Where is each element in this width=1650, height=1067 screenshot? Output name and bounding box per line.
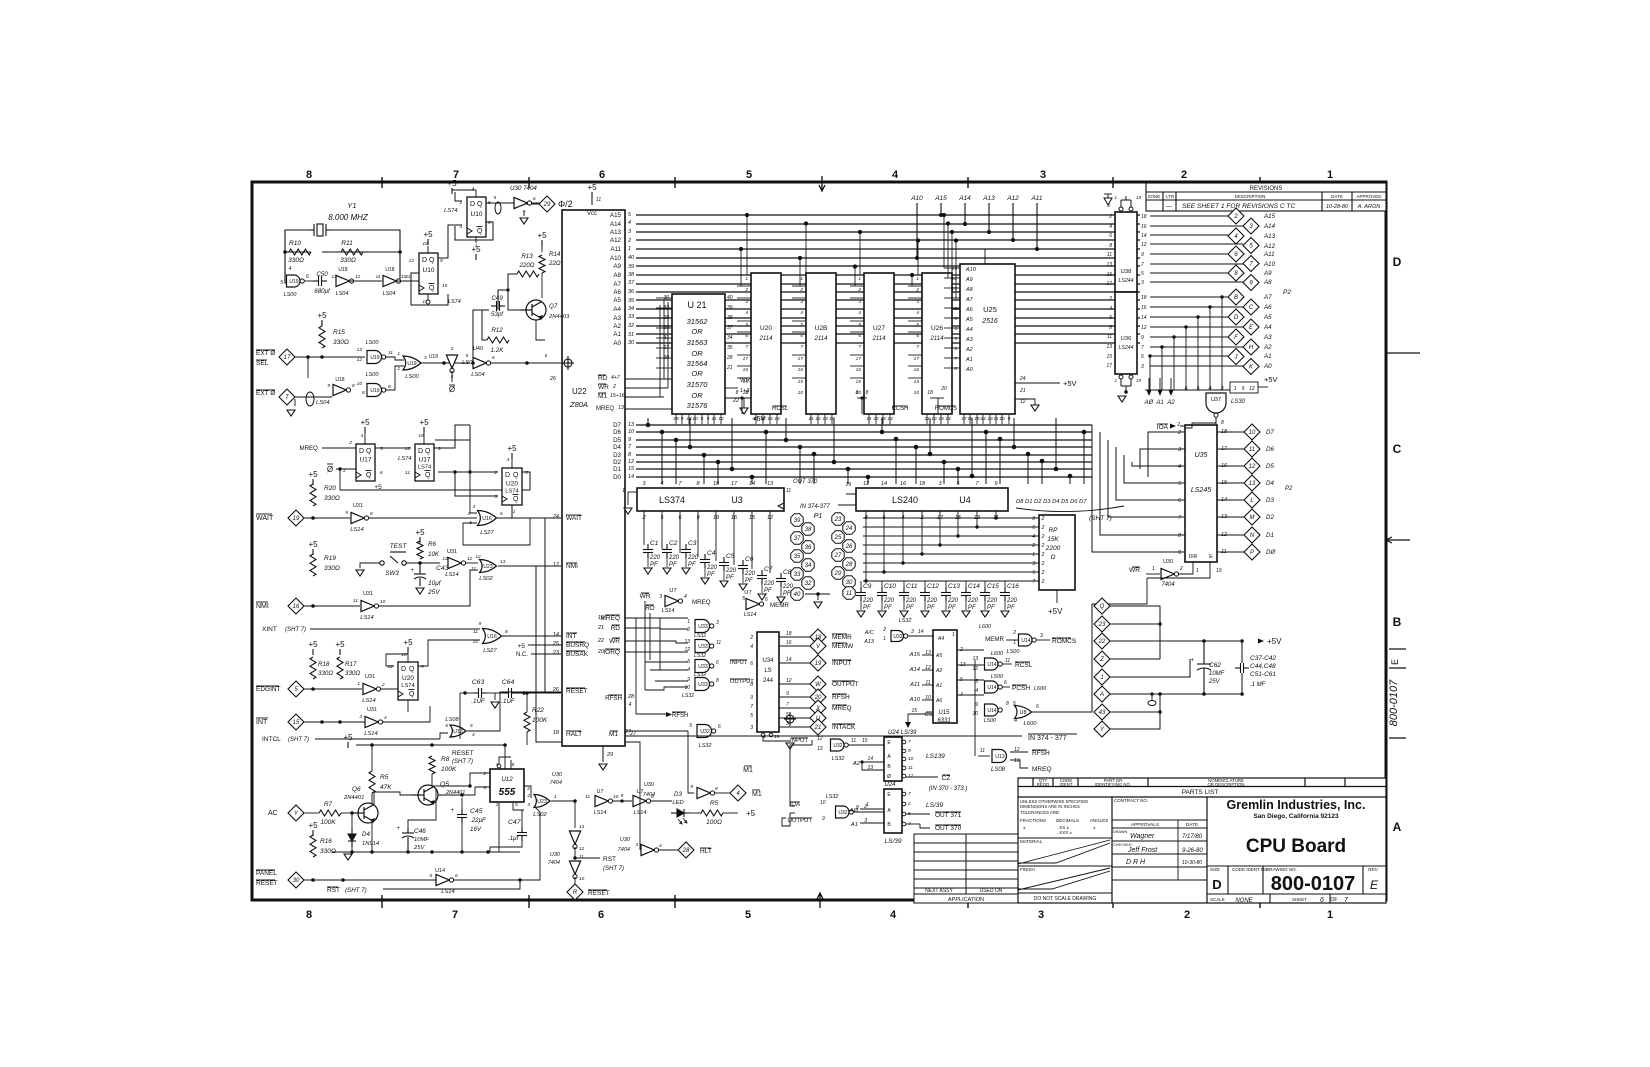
- svg-text:10-28-80: 10-28-80: [1326, 204, 1349, 210]
- ground at C15: [981, 611, 989, 617]
- wire: [737, 397, 747, 399]
- svg-text:+5: +5: [308, 470, 318, 479]
- wire: [976, 414, 978, 424]
- junction: [1160, 345, 1163, 348]
- svg-text:U4: U4: [959, 495, 971, 505]
- svg-text:U14: U14: [987, 662, 996, 668]
- ground at C16: [1001, 611, 1009, 617]
- svg-text:USED ON: USED ON: [980, 888, 1003, 894]
- svg-text:E: E: [1370, 878, 1379, 892]
- connector diamond M D2: [1244, 509, 1260, 525]
- svg-text:C62: C62: [1209, 662, 1221, 669]
- zone tick: [528, 177, 530, 188]
- svg-text:U30: U30: [550, 852, 561, 858]
- svg-text:9: 9: [438, 446, 441, 452]
- C11 lead: [903, 581, 905, 587]
- connector diamond R RESET: [567, 884, 583, 900]
- svg-text:1: 1: [687, 619, 690, 625]
- wire: [978, 755, 990, 757]
- svg-text:U34: U34: [762, 658, 774, 664]
- junction: [398, 250, 402, 254]
- svg-text:D3: D3: [674, 791, 682, 798]
- BUSRQ wire: [528, 644, 561, 646]
- wire: [969, 414, 971, 424]
- flip-flop U17a LS574: [356, 444, 375, 481]
- wire: [475, 190, 477, 197]
- svg-text:U36: U36: [1121, 336, 1132, 342]
- net RESET out: [588, 890, 610, 897]
- svg-text:8: 8: [954, 366, 957, 372]
- svg-text:2: 2: [744, 287, 748, 293]
- U20a wiring: [434, 425, 545, 518]
- wire: [723, 571, 725, 580]
- svg-text:D: D: [505, 472, 510, 479]
- svg-text:11: 11: [1107, 252, 1112, 258]
- A10 vertical drop: [916, 203, 918, 258]
- svg-text:14: 14: [867, 756, 873, 762]
- transistor Q5: [412, 785, 438, 805]
- svg-text:A7: A7: [965, 297, 974, 303]
- wire R14 to Q7: [541, 273, 543, 298]
- NAND gate U33: [695, 620, 714, 633]
- svg-text:D1: D1: [613, 466, 621, 473]
- svg-text:38: 38: [727, 315, 733, 321]
- inverter U31a LS14: [351, 512, 369, 523]
- svg-text:1: 1: [513, 509, 516, 515]
- svg-text:2114: 2114: [814, 336, 829, 342]
- +5 at R6: [415, 528, 425, 543]
- wire: [982, 414, 984, 424]
- vertical rail to U13: [974, 660, 976, 756]
- wire: [650, 800, 672, 802]
- svg-text:LS32: LS32: [694, 672, 706, 678]
- svg-text:7: 7: [908, 739, 911, 745]
- svg-text:RFSH: RFSH: [832, 694, 850, 701]
- flip-flop U17b LS574: [415, 444, 434, 481]
- svg-text:LS14: LS14: [441, 889, 455, 895]
- MREQ wire: [625, 408, 672, 410]
- junction: [620, 799, 623, 802]
- capacitor C63: [473, 688, 487, 698]
- svg-text:5: 5: [494, 195, 497, 201]
- ground at C3: [682, 568, 690, 574]
- connector diamond 11 D6: [1244, 441, 1260, 457]
- junction: [320, 355, 324, 359]
- svg-text:15+16: 15+16: [610, 393, 625, 399]
- junction: [1202, 639, 1206, 643]
- wire: [838, 504, 856, 506]
- svg-text:3: 3: [1040, 633, 1043, 639]
- svg-text:11: 11: [585, 794, 590, 800]
- wire: [460, 692, 473, 694]
- svg-text:9: 9: [1242, 386, 1245, 392]
- svg-text:24: 24: [552, 514, 559, 520]
- svg-text:R5: R5: [380, 774, 389, 781]
- wire: [396, 280, 419, 282]
- svg-text:3: 3: [494, 494, 497, 500]
- svg-text:19: 19: [774, 734, 780, 740]
- svg-text:A1: A1: [1263, 353, 1272, 360]
- inverter U18a LS04: [336, 275, 354, 286]
- svg-text:C47: C47: [508, 819, 521, 826]
- wire: [675, 414, 677, 424]
- NAND gate U32d: [836, 806, 854, 818]
- U22 pin BUSRQ label: [566, 642, 589, 649]
- junction: [573, 799, 577, 803]
- material diagonal: [1018, 840, 1110, 864]
- svg-text:CZ: CZ: [942, 775, 951, 782]
- +5 rail bottom: [343, 733, 353, 748]
- svg-text:OUTPUT: OUTPUT: [787, 818, 812, 824]
- junction A11: [1035, 247, 1039, 251]
- svg-text:PF: PF: [726, 575, 734, 581]
- svg-text:11: 11: [353, 598, 358, 604]
- svg-text:22: 22: [732, 398, 739, 404]
- svg-text:(SHT 7): (SHT 7): [603, 866, 624, 872]
- svg-text:LED: LED: [672, 800, 683, 806]
- svg-text:13: 13: [767, 481, 774, 487]
- svg-text:9: 9: [621, 793, 624, 799]
- svg-text:5: 5: [689, 723, 692, 729]
- svg-text:U20: U20: [402, 675, 414, 682]
- svg-text:U27: U27: [873, 325, 885, 332]
- wire: [490, 841, 522, 852]
- svg-text:5: 5: [745, 322, 748, 328]
- svg-text:MEMR: MEMR: [985, 636, 1004, 643]
- wire U3 output: [643, 511, 645, 545]
- svg-text:DESCRIPTION: DESCRIPTION: [1235, 194, 1266, 199]
- NAND gate U33: [695, 660, 714, 673]
- svg-text:2: 2: [493, 470, 497, 476]
- svg-text:13: 13: [628, 422, 635, 428]
- bead at EXT PHI: [306, 392, 314, 406]
- svg-text:+5V: +5V: [1267, 637, 1282, 646]
- wire: [348, 745, 356, 749]
- capacitor C37-C61: [1235, 663, 1249, 673]
- wire: [340, 888, 437, 890]
- wire: [1010, 760, 1028, 768]
- svg-text:11: 11: [908, 765, 913, 771]
- svg-text:(SHT 7): (SHT 7): [288, 737, 309, 743]
- svg-text:26: 26: [549, 376, 557, 382]
- +5 at U17a: [360, 418, 370, 433]
- svg-text:16: 16: [293, 604, 300, 610]
- junction U4-RP: [938, 543, 941, 546]
- resistor R5 100ohm: [701, 810, 723, 816]
- svg-text:10: 10: [401, 652, 407, 658]
- svg-text:10: 10: [914, 390, 920, 396]
- svg-text:LS244: LS244: [1118, 278, 1133, 284]
- svg-text:220: 220: [725, 568, 737, 574]
- wire: [459, 739, 461, 748]
- svg-text:11: 11: [376, 274, 381, 280]
- svg-text:MEMW: MEMW: [832, 643, 854, 650]
- connector pin 30: [843, 576, 855, 588]
- svg-text:Q: Q: [425, 448, 431, 455]
- svg-text:28: 28: [845, 562, 853, 568]
- svg-text:28: 28: [627, 694, 635, 700]
- svg-text:3: 3: [716, 620, 719, 626]
- svg-text:9: 9: [690, 784, 693, 790]
- address bus line A0: [636, 342, 1140, 344]
- wire: [906, 823, 920, 825]
- svg-text:L600: L600: [1024, 721, 1038, 727]
- svg-text:U2B: U2B: [815, 325, 828, 332]
- svg-text:D4: D4: [362, 831, 370, 838]
- svg-text:21: 21: [726, 365, 733, 371]
- svg-text:11: 11: [980, 748, 985, 754]
- svg-text:A5: A5: [1263, 314, 1272, 321]
- A12 vertical drop: [1012, 203, 1014, 240]
- stepped data wire D6: [1140, 449, 1185, 469]
- svg-text:26: 26: [845, 544, 853, 550]
- wire: [627, 492, 629, 505]
- wire: [824, 414, 826, 424]
- resistor R6: [417, 541, 423, 559]
- svg-text:LS244: LS244: [1118, 345, 1133, 351]
- svg-text:LS32: LS32: [682, 693, 694, 699]
- svg-text:L600: L600: [1034, 686, 1047, 692]
- svg-text:8: 8: [388, 384, 391, 390]
- title block outline: [1018, 778, 1386, 903]
- svg-text:U19: U19: [407, 361, 416, 367]
- ROM U21: [672, 294, 725, 414]
- svg-text:C45: C45: [470, 808, 483, 815]
- svg-text:U35: U35: [1195, 452, 1208, 459]
- svg-text:U32: U32: [893, 634, 902, 640]
- wire to address diamond: [1150, 234, 1228, 236]
- U22 pin BUSAK label: [566, 651, 589, 658]
- arrowhead IOA: [1170, 424, 1176, 429]
- wire to DIR: [1178, 562, 1193, 574]
- WR wire: [625, 387, 668, 389]
- svg-text:RP: RP: [1048, 527, 1058, 534]
- svg-text:220: 220: [986, 598, 998, 604]
- wire to address diamond: [1150, 316, 1228, 318]
- svg-text:12: 12: [579, 846, 585, 852]
- svg-text:DATE: DATE: [1186, 822, 1198, 827]
- svg-text:17: 17: [1106, 281, 1112, 287]
- svg-text:F: F: [1234, 335, 1238, 341]
- wire: [1151, 694, 1153, 700]
- svg-text:SCALE: SCALE: [1210, 897, 1225, 902]
- connector diamond 10 D7: [1244, 424, 1260, 440]
- wire P1 40-11: [805, 593, 830, 595]
- capacitor C4 symbol: [700, 554, 710, 568]
- ROM U25 2516: [960, 264, 1015, 414]
- svg-text:28: 28: [682, 848, 690, 854]
- svg-text:PF: PF: [745, 578, 753, 584]
- connector diamond Q: [1094, 598, 1110, 614]
- svg-text:Q6: Q6: [352, 786, 361, 793]
- connector diamond A: [1094, 686, 1110, 702]
- svg-text:9: 9: [440, 258, 443, 264]
- net label RFSH: [832, 694, 850, 701]
- ground at P1: [814, 602, 822, 608]
- RFSH wire: [636, 713, 666, 715]
- svg-text:7: 7: [908, 791, 911, 797]
- wire to U37 input: [1197, 317, 1199, 390]
- svg-text:17: 17: [1106, 363, 1112, 369]
- svg-text:+5: +5: [403, 638, 413, 647]
- MREQ wire from U22: [625, 617, 660, 619]
- connector pin 35: [791, 550, 803, 562]
- connector diamond 3 A14: [1243, 218, 1259, 234]
- ground at U30a: [520, 218, 528, 224]
- svg-text:REQD: REQD: [1037, 782, 1049, 787]
- svg-text:WR: WR: [640, 593, 651, 600]
- ground at U21: [740, 408, 748, 414]
- C14 lead: [965, 581, 967, 587]
- svg-text:2: 2: [1181, 169, 1187, 181]
- svg-text:A10: A10: [1263, 261, 1276, 268]
- U21 address stubs: [656, 298, 672, 368]
- wire to diamond 19: [779, 662, 810, 664]
- svg-text:PF: PF: [688, 562, 696, 568]
- U15 output wire: [957, 694, 984, 696]
- svg-text:A2: A2: [613, 323, 621, 330]
- svg-text:2114: 2114: [759, 336, 774, 342]
- resistor R10: [289, 249, 311, 255]
- flip-flop U20b LS74: [398, 662, 418, 700]
- svg-text:6: 6: [1109, 233, 1112, 239]
- svg-text:21: 21: [814, 725, 822, 731]
- +5 at R13/R14: [537, 231, 547, 246]
- approvals table: [1112, 820, 1207, 880]
- svg-text:10: 10: [1249, 430, 1256, 436]
- svg-text:15: 15: [628, 466, 635, 472]
- svg-text:8: 8: [1109, 243, 1112, 249]
- svg-text:1.2K: 1.2K: [491, 347, 505, 354]
- svg-text:OUT 370: OUT 370: [793, 479, 818, 485]
- svg-text:3: 3: [1040, 169, 1046, 181]
- svg-text:RD: RD: [598, 375, 608, 382]
- connector diamond 15: [288, 714, 304, 730]
- ground arrow at U38 enable: [1104, 198, 1112, 205]
- svg-text:6: 6: [380, 470, 383, 476]
- svg-text:6: 6: [916, 333, 919, 339]
- NAND gate U19c: [367, 384, 386, 397]
- svg-text:Z: Z: [1099, 657, 1104, 663]
- svg-text:D6: D6: [613, 429, 621, 436]
- svg-text:19: 19: [598, 615, 604, 621]
- svg-text:A15: A15: [934, 195, 947, 202]
- net RCSL: [772, 406, 789, 412]
- svg-text:OR: OR: [691, 327, 703, 336]
- wire: [524, 790, 534, 797]
- svg-text:A. ARON: A. ARON: [1357, 204, 1380, 210]
- junction: [460, 850, 463, 853]
- net label INTACK: [832, 724, 856, 731]
- svg-text:8: 8: [1032, 516, 1035, 522]
- wire: [637, 342, 639, 344]
- svg-text:220: 220: [862, 598, 874, 604]
- svg-text:100K: 100K: [320, 819, 336, 826]
- wire: [465, 562, 478, 564]
- svg-text:8: 8: [370, 511, 373, 517]
- ground at U3 pin 1: [624, 508, 632, 514]
- svg-text:MATERIAL: MATERIAL: [1020, 839, 1043, 844]
- +5 at R15: [317, 311, 327, 326]
- C10 lead: [881, 581, 883, 587]
- svg-text:LS14: LS14: [594, 810, 607, 816]
- wire from IOA region to OUTPUT bottom: [782, 740, 812, 826]
- clock into U22: [490, 362, 561, 364]
- XINT wire: [310, 628, 480, 630]
- svg-text:19: 19: [1136, 378, 1142, 383]
- junction: [1196, 315, 1199, 318]
- wire: [461, 823, 463, 852]
- svg-text:INPUT: INPUT: [832, 660, 852, 667]
- wire: [926, 414, 928, 424]
- wire INPUT vertical: [809, 733, 811, 745]
- svg-text:U7: U7: [744, 590, 751, 596]
- svg-text:2: 2: [612, 384, 616, 390]
- transistor Q7: [520, 300, 546, 320]
- svg-text:H: H: [1249, 345, 1254, 351]
- svg-text:+5: +5: [518, 643, 526, 650]
- connector pin 37: [791, 532, 803, 544]
- svg-text:C2: C2: [669, 540, 678, 547]
- svg-text:4: 4: [473, 504, 476, 510]
- svg-text:C63: C63: [472, 679, 485, 686]
- WR vertical: [644, 601, 646, 690]
- svg-text:330Ω: 330Ω: [324, 565, 340, 572]
- svg-text:C51-C61: C51-C61: [1250, 671, 1276, 678]
- U37 input box 1 9 12: [1230, 382, 1258, 393]
- svg-text:12: 12: [1020, 399, 1026, 405]
- net label OUTPUT: [832, 681, 859, 688]
- svg-text:N.C.: N.C.: [516, 652, 528, 658]
- resistor R20: [310, 484, 316, 506]
- off-sheet brace: [1016, 506, 1124, 512]
- svg-text:16: 16: [786, 640, 792, 646]
- NMI to U22: [498, 565, 561, 567]
- svg-text:5: 5: [515, 802, 518, 808]
- wire: [663, 283, 665, 285]
- svg-text:+5: +5: [537, 231, 547, 240]
- wire: [574, 877, 576, 884]
- svg-text:13: 13: [817, 746, 823, 752]
- svg-text:8: 8: [750, 682, 753, 688]
- wire: [380, 688, 398, 690]
- svg-text:A10: A10: [610, 255, 622, 262]
- svg-text:Q: Q: [1100, 604, 1105, 610]
- svg-text:A10: A10: [965, 267, 977, 273]
- Vcc wire: [591, 198, 593, 205]
- svg-text:32: 32: [805, 581, 812, 587]
- wire: [922, 654, 933, 656]
- +5 at R17: [335, 640, 345, 655]
- svg-text:FRACTIONS: FRACTIONS: [1020, 818, 1046, 823]
- finish diagonal: [1018, 868, 1110, 890]
- wire to diamond D6: [1217, 448, 1244, 450]
- latch U3 LS374: [637, 488, 784, 511]
- svg-text:4: 4: [384, 715, 387, 721]
- svg-text:LS04: LS04: [471, 372, 485, 378]
- svg-text:14: 14: [749, 481, 755, 487]
- svg-text:35: 35: [794, 554, 801, 560]
- wire: [889, 414, 891, 424]
- wire: [694, 414, 696, 424]
- capacitor C3 symbol: [681, 544, 691, 558]
- svg-text:6: 6: [533, 196, 536, 202]
- svg-text:12: 12: [1249, 464, 1256, 470]
- wire: [513, 802, 522, 810]
- wire U4 output drop: [939, 511, 941, 545]
- wire: [1015, 399, 1035, 405]
- zone tick: [381, 895, 383, 908]
